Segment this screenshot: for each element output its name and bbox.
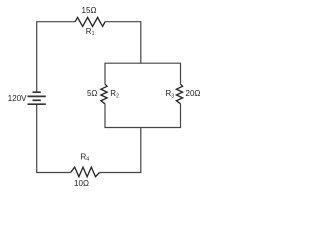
resistor R4 [71,167,100,177]
wire: top rail of parallel section [105,63,181,84]
battery short plate [33,99,41,101]
resistor R1 [75,17,105,26]
svg-text:15Ω: 15Ω [82,6,97,15]
wire: left rail up from battery and top wire to R1 [37,22,75,93]
resistor R2 [101,84,107,104]
svg-text:20Ω: 20Ω [186,89,201,98]
svg-text:10Ω: 10Ω [74,179,89,188]
battery long plate [28,95,46,97]
svg-text:5Ω: 5Ω [87,89,97,98]
wire: R4 to bottom-left corner up to battery [37,104,71,172]
svg-text:120V: 120V [8,94,27,103]
battery B1 (120V source) [28,92,46,104]
wire: bottom rail of parallel section [105,104,181,128]
battery short plate (top) [33,91,41,93]
battery long plate (bottom) [28,103,46,105]
resistor R3 [176,84,182,104]
wire: bottom stem down and left to R4 [100,128,141,173]
wire: R1 to top-right corner, down to parallel top rail [105,22,141,64]
